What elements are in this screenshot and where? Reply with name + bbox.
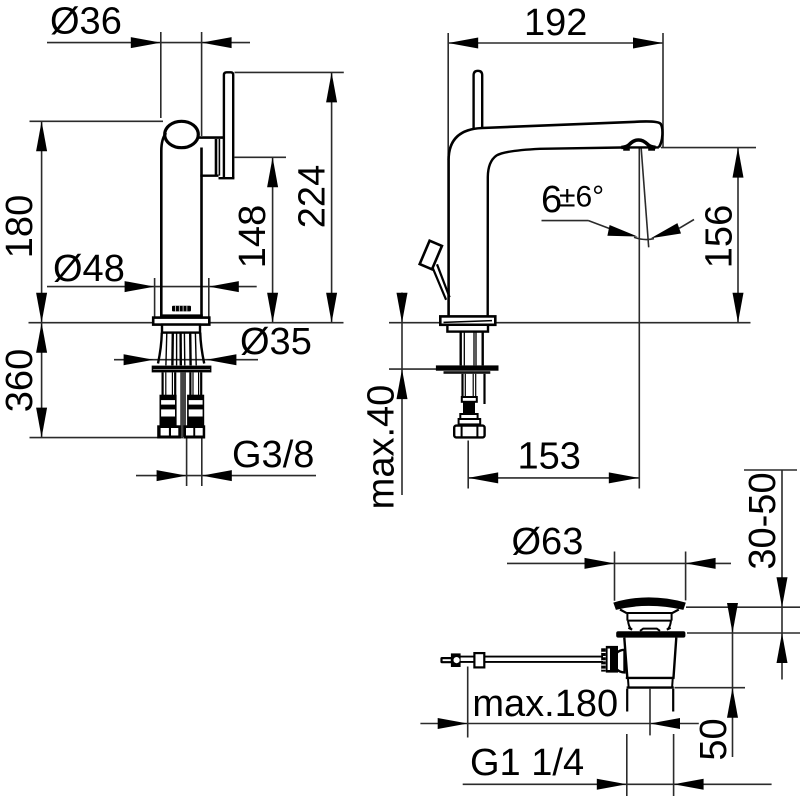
- svg-text:Ø36: Ø36: [50, 1, 122, 43]
- shank outer line right: [200, 333, 204, 364]
- side shank wall left: [460, 332, 462, 366]
- dimension 50 arrow up: [727, 688, 738, 718]
- pivot thread stub: [601, 648, 606, 671]
- drain axis extension line: [649, 689, 651, 736]
- svg-text:Ø63: Ø63: [512, 521, 584, 563]
- dimension G3/8 line: [136, 475, 316, 477]
- dimension line max.40 vertical: [401, 293, 403, 496]
- drain center bump: [640, 629, 660, 631]
- dimension line 192: [448, 42, 663, 44]
- svg-text:Ø35: Ø35: [240, 321, 312, 363]
- faucet body right wall: [200, 148, 203, 317]
- extension line 148: [235, 156, 287, 158]
- extension line flange top: [687, 632, 800, 634]
- base flange Ø48: [153, 318, 209, 325]
- hub top line: [198, 136, 224, 139]
- side shank inner line 1: [463, 332, 465, 366]
- lever bottom edge: [219, 177, 235, 179]
- left ferrule band 2: [160, 405, 176, 410]
- extension line G1 1/4 left: [626, 734, 628, 796]
- right crimp ferrule outline: [188, 396, 204, 426]
- dimension line 156 vertical: [737, 148, 739, 323]
- left crimp ferrule outline: [160, 396, 176, 426]
- side washer nut lower: [444, 371, 491, 374]
- shank outer line left: [158, 333, 162, 364]
- pivot nut block: [606, 646, 618, 673]
- left hose wall 1: [162, 372, 164, 395]
- side shank inner line 3: [475, 332, 477, 366]
- extension line Ø36 left: [160, 32, 162, 118]
- extension line 360 bottom: [30, 437, 184, 439]
- drain body walls: [624, 638, 676, 678]
- mounting washer nut: [152, 366, 212, 373]
- dimension Ø36 arrow right: [202, 37, 232, 48]
- side flange inner slant: [444, 321, 493, 323]
- drain neck upper: [627, 613, 672, 621]
- dimension Ø36 line left: [47, 42, 250, 44]
- spray cone line left / extension 153: [638, 149, 640, 489]
- right hose wall 2: [192, 372, 194, 395]
- extension line max.40 bottom: [389, 368, 436, 370]
- spout outline: [449, 121, 663, 315]
- FRONT VIEW OBJECT: [152, 72, 235, 438]
- drain neck lip right: [667, 628, 671, 630]
- KEUCO logo: [172, 306, 191, 312]
- left hose wall 3: [171, 372, 173, 395]
- left fitting window 2: [171, 428, 178, 436]
- dimension line 148 vertical: [272, 157, 274, 322]
- svg-text:50: 50: [693, 718, 735, 760]
- faucet body left wall: [161, 133, 166, 317]
- FRONT VIEW DIMENSION LINES: [0, 1, 344, 487]
- extension line 156 top: [661, 147, 756, 149]
- side tier 2: [459, 419, 481, 424]
- svg-text:30-50: 30-50: [742, 472, 784, 569]
- dimension Ø63 arrow left: [585, 558, 615, 569]
- dimension 50 arrow down: [727, 603, 738, 633]
- side tube inner 3: [475, 374, 477, 397]
- dimension Ø63 line left: [507, 562, 731, 564]
- left ferrule band 3: [161, 417, 176, 425]
- threaded stud column: [180, 372, 186, 437]
- left hose wall 4: [174, 372, 176, 395]
- dimension line 180/360 vertical: [41, 121, 43, 437]
- hub vertical thin line: [218, 139, 220, 176]
- angle leader slanted: [589, 221, 621, 233]
- shank line 4: [176, 333, 178, 366]
- angle leader horizontal: [542, 220, 589, 222]
- side end nut facet right: [476, 426, 478, 438]
- extension line Ø36 right: [201, 32, 203, 136]
- side shank block: [447, 325, 488, 332]
- aerator dash right: [648, 149, 655, 151]
- dimension Ø36 arrow left: [131, 37, 161, 48]
- right ferrule band 3: [188, 417, 203, 425]
- drain neck lip left: [628, 628, 632, 630]
- handle lever front view: [224, 72, 233, 178]
- shank line 3: [171, 333, 174, 366]
- extension line 180 top: [30, 120, 164, 122]
- extension line 30-50 top reference: [744, 469, 797, 471]
- shank center line 5: [179, 333, 182, 366]
- dimension Ø48 line left: [47, 286, 257, 288]
- side washer nut upper: [436, 365, 499, 370]
- dimension Ø48 arrow right: [209, 281, 239, 292]
- drain neck lower: [628, 621, 671, 629]
- svg-text:G3/8: G3/8: [232, 434, 314, 476]
- extension line G3/8 left: [186, 439, 188, 487]
- svg-text:±6°: ±6°: [559, 181, 604, 214]
- washer inner line: [153, 368, 210, 370]
- svg-text:180: 180: [0, 195, 41, 258]
- svg-text:192: 192: [524, 2, 587, 44]
- dimension G3/8 arrow left: [157, 470, 187, 481]
- deck line front view: [29, 322, 344, 324]
- drain body bottom line 2: [627, 686, 674, 688]
- left ferrule band 1: [160, 396, 177, 401]
- dimension 153 arrow right: [609, 472, 639, 483]
- svg-text:G1 1/4: G1 1/4: [470, 742, 584, 784]
- right ferrule band 1: [187, 396, 204, 401]
- svg-text:max.180: max.180: [472, 683, 618, 725]
- extension line Ø63 left: [614, 552, 616, 601]
- svg-text:148: 148: [232, 205, 274, 268]
- svg-text:156: 156: [699, 205, 741, 268]
- hub vertical thick line: [215, 139, 218, 176]
- side shank wall right: [482, 332, 484, 366]
- aerator dash left: [623, 149, 630, 151]
- spout underside: [488, 147, 659, 315]
- side tube inner 2: [472, 374, 474, 397]
- dimension 156 arrow up: [733, 148, 744, 178]
- dimension 148 arrow down: [267, 293, 278, 323]
- angle leader right: [679, 220, 694, 229]
- dimension Ø48 arrow left: [125, 281, 155, 292]
- dimension 153 arrow left: [468, 472, 498, 483]
- dimension Ø35 arrow left: [124, 354, 154, 365]
- shank line 8: [194, 333, 197, 366]
- drain under-cap trapezoid: [620, 610, 679, 614]
- rod tip slot: [443, 659, 451, 661]
- dimension max.40 arrow up: [397, 369, 408, 399]
- dimension 180 arrow down: [36, 293, 47, 323]
- angle arc: [634, 237, 654, 239]
- extension line 224: [235, 71, 344, 73]
- extension line 153 left: [467, 441, 469, 489]
- right fitting window 1: [186, 428, 193, 436]
- dimension 30-50 arrow down: [777, 577, 788, 607]
- left hose wall 2: [165, 372, 167, 395]
- dimension Ø35 line left: [114, 359, 258, 361]
- side crimp ring: [462, 397, 477, 402]
- spout body white fill: [449, 121, 663, 315]
- rod collar hole: [454, 657, 460, 663]
- side black block: [463, 402, 475, 413]
- extension line G1 1/4 right: [673, 734, 675, 796]
- dimension 360 arrow up: [36, 323, 47, 353]
- shank line 7: [189, 333, 192, 366]
- right ferrule band 2: [188, 405, 204, 410]
- hub bottom step left: [200, 174, 218, 176]
- svg-text:153: 153: [518, 436, 581, 478]
- dimension max.180 arrow right: [650, 718, 680, 729]
- body bottom edge: [160, 314, 203, 317]
- dimension G1 1/4 arrow left: [597, 779, 627, 790]
- drain body lower walls: [628, 679, 673, 687]
- extension line G3/8 right: [201, 439, 203, 487]
- pull rod upper line: [461, 656, 604, 658]
- shank line 2: [165, 333, 168, 366]
- dimension 180 arrow up: [36, 121, 47, 151]
- top pin lever: [474, 71, 483, 129]
- right hose wall 3: [198, 372, 200, 395]
- rod adjustment ring: [474, 653, 484, 667]
- side lever shaft line 1: [432, 267, 446, 300]
- drain body bottom line 1: [626, 677, 675, 679]
- dimension 192 arrow right: [633, 38, 663, 49]
- side end nut facet left: [461, 426, 463, 438]
- extension line max.180 left: [467, 667, 469, 738]
- dimension 156 arrow down: [733, 293, 744, 323]
- dimension Ø35 arrow right: [206, 354, 236, 365]
- dimension line 153: [468, 477, 639, 479]
- svg-text:max.40: max.40: [361, 385, 403, 510]
- dimension G3/8 arrow right: [202, 470, 232, 481]
- tailpipe walls: [627, 689, 673, 712]
- extension line Ø48 right: [208, 278, 210, 317]
- dimension 224 arrow up: [326, 72, 337, 102]
- dimension line 224 vertical: [331, 72, 333, 322]
- dimension 224 arrow down: [326, 293, 337, 323]
- pull rod lower line: [461, 661, 604, 663]
- svg-text:224: 224: [292, 165, 334, 228]
- cartridge ball joint: [165, 121, 199, 147]
- extension line Ø48 left: [154, 278, 156, 317]
- side end nut: [454, 426, 484, 438]
- aerator bump: [621, 140, 655, 148]
- extension line 192 right: [662, 33, 664, 148]
- side tube below washer left: [461, 374, 463, 397]
- angle arrow right: [651, 223, 681, 238]
- svg-text:Ø48: Ø48: [53, 248, 125, 290]
- svg-text:360: 360: [0, 349, 41, 412]
- extension line body bottom: [675, 687, 746, 689]
- dimension 192 arrow left: [448, 38, 478, 49]
- side tube right line: [483, 374, 485, 404]
- dimension line max.180: [420, 723, 698, 725]
- dimension max.40 arrow down: [397, 293, 408, 323]
- dimension Ø63 arrow right: [686, 558, 716, 569]
- angle arrow left: [607, 225, 637, 237]
- DRAIN VIEW: [420, 470, 800, 796]
- SIDE VIEW: [361, 2, 757, 509]
- drain flange: [616, 631, 685, 637]
- dimension max.180 arrow left: [438, 718, 468, 729]
- dimension line 30-50 vertical: [781, 470, 783, 680]
- extension line Ø63 right: [685, 552, 687, 601]
- dimension line 50 vertical: [732, 607, 734, 757]
- rod collar: [451, 653, 461, 667]
- dimension 30-50 arrow up: [777, 633, 788, 663]
- side base flange: [440, 316, 495, 324]
- left fitting window 1: [161, 428, 169, 436]
- pivot thread stripes: [601, 652, 605, 669]
- shank line 6: [183, 333, 185, 366]
- side tube inner 1: [464, 374, 466, 397]
- side lever knob: [420, 241, 442, 270]
- dimension 360 arrow down: [36, 408, 47, 438]
- side tier 1: [460, 414, 477, 419]
- side shank inner line 2: [473, 332, 475, 366]
- pivot ball housing bulge: [613, 650, 624, 673]
- pivot nut white stripe: [608, 649, 610, 671]
- extension line cap bottom: [686, 606, 800, 608]
- right hose end fitting: [183, 425, 205, 438]
- rod tip: [440, 657, 452, 663]
- shank top block: [162, 325, 200, 333]
- right hose wall 1: [189, 372, 191, 395]
- dimension line G1 1/4: [463, 783, 772, 785]
- deck line side view: [389, 322, 751, 324]
- spray cone line right: [641, 149, 649, 248]
- dimension 148 arrow up: [267, 157, 278, 187]
- drain cap dome: [613, 597, 686, 610]
- side lever shaft line 2: [437, 264, 450, 297]
- right fitting window 2: [195, 428, 203, 436]
- left hose end fitting: [157, 425, 181, 438]
- dimension G1 1/4 arrow right: [674, 779, 704, 790]
- extension line 192 left: [447, 33, 449, 160]
- right hose wall 4: [200, 372, 202, 395]
